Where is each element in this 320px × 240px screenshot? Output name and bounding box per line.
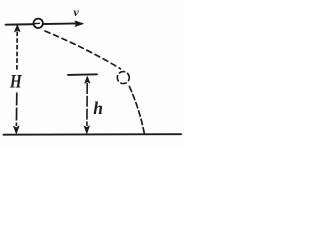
dashed trajectory: upper segment from ball to intermediate position xyxy=(45,31,121,69)
ground line xyxy=(4,133,182,136)
H dimension: top arrowhead (points up at launch line) xyxy=(15,25,21,32)
h dimension: top arrowhead (points up at bar) xyxy=(85,76,90,83)
tick inside ball xyxy=(34,22,39,24)
svg-text:h: h xyxy=(93,98,103,118)
dashed trajectory: lower segment from intermediate ball to ground xyxy=(129,87,144,134)
svg-text:v: v xyxy=(73,5,79,19)
svg-text:H: H xyxy=(9,71,22,92)
arrowhead of velocity arrow v xyxy=(75,21,83,26)
H dimension: bottom arrowhead (points down at ground) xyxy=(14,126,20,134)
reference bar at height h xyxy=(68,73,97,76)
wire: top horizontal launch line xyxy=(6,23,78,24)
H dimension: upper dashed shaft xyxy=(16,32,18,72)
h dimension: bottom arrowhead (points down at ground) xyxy=(84,126,89,134)
ball at height h (dashed circle on trajectory) xyxy=(117,72,129,84)
ball at launch point xyxy=(34,19,43,28)
physics figure: projectile launched horizontally from height H xyxy=(0,0,184,147)
h dimension: shaft xyxy=(86,83,88,126)
H dimension: lower shaft xyxy=(15,93,17,127)
